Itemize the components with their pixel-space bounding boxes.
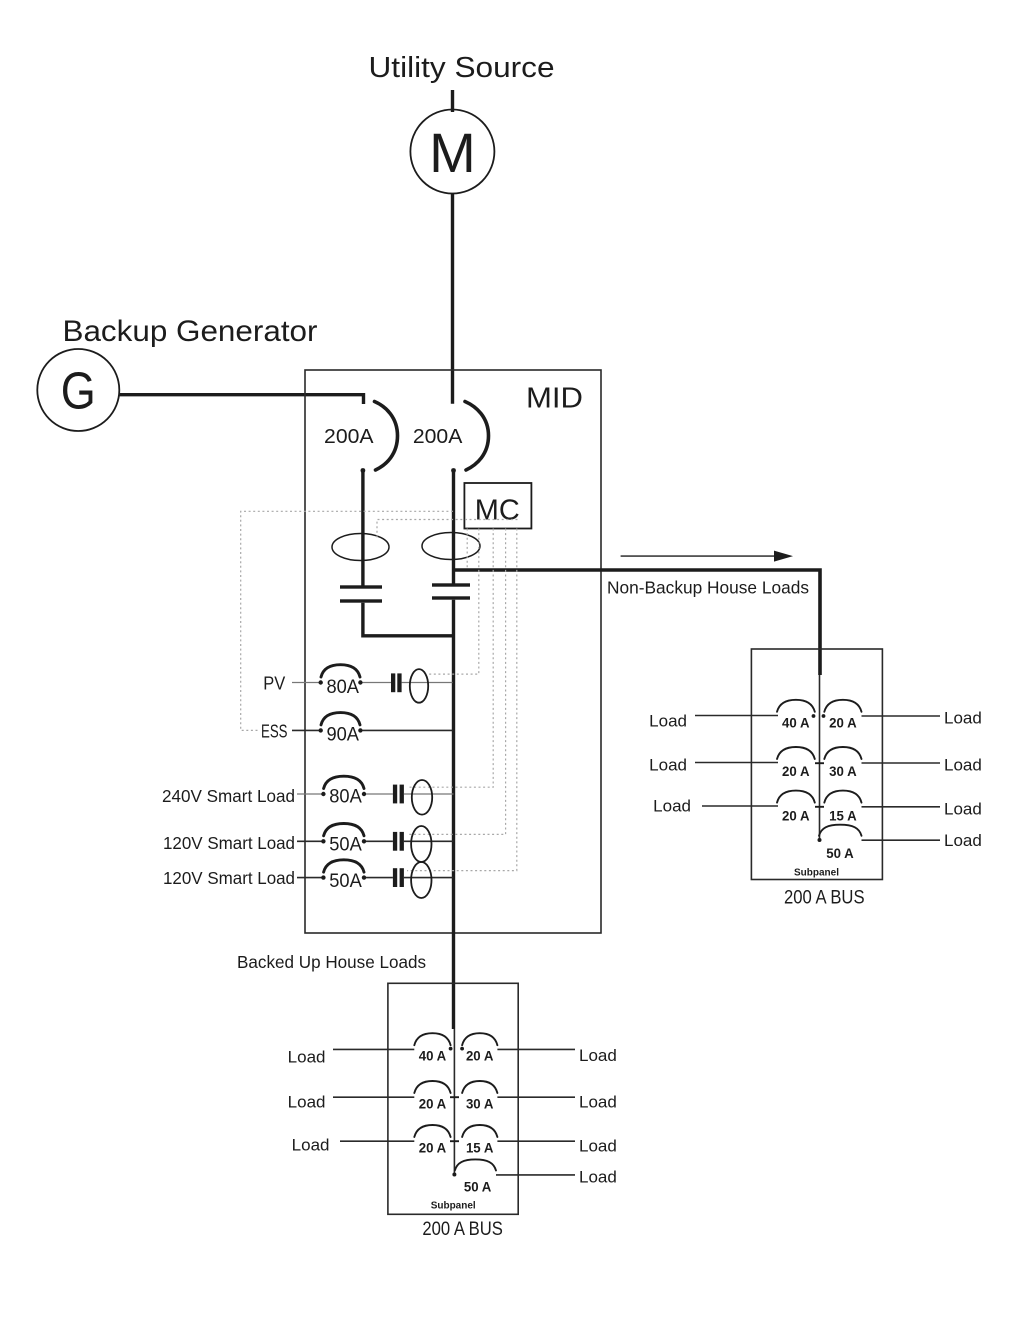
MC controller box xyxy=(464,483,531,529)
svg-text:200A: 200A xyxy=(324,425,374,448)
svg-text:Load: Load xyxy=(292,1136,330,1155)
breaker B1L 40A xyxy=(414,1033,450,1064)
sensor 120V-1 xyxy=(411,826,431,862)
wire dotted PV sensor control xyxy=(427,529,479,675)
breaker B2R 30A xyxy=(462,1081,497,1112)
svg-text:20 A: 20 A xyxy=(419,1097,447,1112)
wire 120V-1 breaker to sensor xyxy=(366,840,393,842)
breaker R3R 15A xyxy=(824,791,861,824)
svg-text:Non-Backup House Loads: Non-Backup House Loads xyxy=(607,578,809,598)
wire non-backup feeder xyxy=(454,570,821,675)
svg-text:200 A BUS: 200 A BUS xyxy=(422,1219,503,1240)
sensor PV xyxy=(410,669,428,703)
wire 120V-2 lead xyxy=(297,877,324,879)
ESS branch xyxy=(261,713,453,746)
breaker R1R 20A xyxy=(824,700,861,731)
wire PV lead xyxy=(292,682,321,684)
wire dotted left CT control xyxy=(377,520,518,541)
svg-text:15 A: 15 A xyxy=(829,808,857,823)
breaker 240V 80A xyxy=(324,776,364,788)
svg-text:Load: Load xyxy=(579,1093,617,1112)
breaker R2L 20A xyxy=(777,747,815,779)
svg-text:30 A: 30 A xyxy=(829,764,857,779)
contactor generator side xyxy=(340,585,382,602)
breaker B4 50A xyxy=(455,1159,496,1194)
wire load B1L xyxy=(333,1048,414,1050)
svg-text:MC: MC xyxy=(475,495,520,527)
120V smart load branch 1 xyxy=(163,824,454,863)
svg-text:Backed Up House Loads: Backed Up House Loads xyxy=(237,952,426,972)
svg-text:80A: 80A xyxy=(329,786,362,808)
wire subpanel bottom bus xyxy=(453,1029,455,1175)
svg-text:240V Smart Load: 240V Smart Load xyxy=(162,786,295,806)
120V smart load branch 2 xyxy=(163,860,454,898)
240V smart load branch xyxy=(162,776,454,814)
subpanel bottom enclosure xyxy=(388,983,518,1214)
wire load R2R xyxy=(862,762,941,764)
svg-text:Load: Load xyxy=(944,831,982,850)
contact pair 120V-2 xyxy=(393,868,397,887)
wire PV breaker to sensor xyxy=(363,682,392,684)
svg-text:120V Smart Load: 120V Smart Load xyxy=(163,833,295,853)
wire generator to MID generator breaker xyxy=(120,395,364,404)
subpanel right enclosure xyxy=(751,649,882,880)
svg-text:40 A: 40 A xyxy=(419,1049,447,1064)
breaker B1R 20A xyxy=(462,1033,497,1064)
breaker R4 50A xyxy=(819,825,862,861)
wire load B2L xyxy=(333,1096,414,1098)
svg-text:20 A: 20 A xyxy=(829,716,857,731)
wire load R2L xyxy=(695,762,778,764)
wire ESS breaker to bus xyxy=(363,729,453,731)
CT generator side xyxy=(332,534,389,561)
svg-text:20 A: 20 A xyxy=(782,764,810,779)
wire generator breaker to contactor xyxy=(361,469,364,587)
breaker B3L 20A xyxy=(414,1125,450,1156)
wire load B4R xyxy=(496,1174,575,1176)
wire load R1L xyxy=(695,715,778,717)
svg-text:Load: Load xyxy=(653,797,691,816)
arrow non-backup direction xyxy=(621,551,793,562)
wire generator contactor to bus xyxy=(363,603,454,636)
MID enclosure xyxy=(305,370,601,933)
wire 120V-2 sensor to bus xyxy=(404,877,454,879)
svg-text:Load: Load xyxy=(579,1046,617,1065)
wire load B1R xyxy=(497,1048,575,1050)
wire load R3R xyxy=(862,806,941,808)
svg-text:50 A: 50 A xyxy=(464,1179,492,1194)
sensor 240V xyxy=(412,780,432,815)
svg-text:50A: 50A xyxy=(329,834,362,856)
svg-text:MID: MID xyxy=(526,383,583,415)
breaker 120V-2 50A xyxy=(324,860,364,872)
wire dotted 240V sensor control xyxy=(407,529,493,788)
wire utility drop to meter xyxy=(451,90,454,112)
wire 120V-2 breaker to sensor xyxy=(366,877,393,879)
breaker R2R 30A xyxy=(824,747,861,779)
wire load R1R xyxy=(862,715,941,717)
PV branch xyxy=(263,665,452,703)
wire 120V-1 sensor to bus xyxy=(404,840,454,842)
svg-text:Subpanel: Subpanel xyxy=(431,1200,476,1212)
svg-text:20 A: 20 A xyxy=(419,1141,447,1156)
wire 240V breaker to sensor xyxy=(366,793,393,795)
wire load R3L xyxy=(702,805,778,807)
wire load B2R xyxy=(497,1096,575,1098)
junction ticks right subpanel bus xyxy=(815,763,824,807)
svg-text:20 A: 20 A xyxy=(466,1049,494,1064)
svg-text:Load: Load xyxy=(649,756,687,775)
generator G xyxy=(37,349,119,431)
wire meter to MID utility breaker xyxy=(451,194,454,404)
svg-text:20 A: 20 A xyxy=(782,808,810,823)
svg-text:90A: 90A xyxy=(326,724,359,746)
svg-text:Load: Load xyxy=(649,712,687,731)
breaker 120V-1 50A xyxy=(324,824,364,836)
breaker B3R 15A xyxy=(462,1125,497,1156)
wire backed-up bus xyxy=(452,600,455,1029)
wire dotted 120V sensor 2 control xyxy=(407,529,517,871)
wire 120V-1 lead xyxy=(297,840,324,842)
breaker 200A generator xyxy=(324,402,397,471)
svg-text:50 A: 50 A xyxy=(826,846,854,861)
dotted control wiring MC to CTs and sensors xyxy=(241,511,518,870)
sensor 120V-2 xyxy=(411,862,431,898)
svg-text:30 A: 30 A xyxy=(466,1097,494,1112)
wire dotted 120V sensor 1 control xyxy=(407,529,506,835)
contact pair 240V xyxy=(393,785,397,804)
svg-text:40 A: 40 A xyxy=(782,716,810,731)
meter M xyxy=(410,110,494,194)
breaker PV 80A xyxy=(321,665,360,677)
breaker ESS 90A xyxy=(321,713,360,725)
svg-text:PV: PV xyxy=(263,674,285,694)
svg-text:Load: Load xyxy=(288,1048,326,1067)
svg-text:Backup Generator: Backup Generator xyxy=(63,315,318,348)
svg-text:200 A BUS: 200 A BUS xyxy=(784,888,865,909)
wire load B3R xyxy=(497,1140,575,1142)
svg-text:200A: 200A xyxy=(413,425,463,448)
loads bottom subpanel left side xyxy=(333,1049,414,1141)
breaker 200A utility xyxy=(413,402,489,471)
svg-text:G: G xyxy=(61,363,96,421)
svg-text:Load: Load xyxy=(944,800,982,819)
breaker R1L 40A xyxy=(777,700,815,731)
junction ticks bottom subpanel bus xyxy=(450,1097,459,1141)
wire dotted feeder sense xyxy=(466,529,468,569)
svg-text:ESS: ESS xyxy=(261,722,288,742)
breaker B2L 20A xyxy=(414,1081,450,1112)
wire 240V sensor to bus xyxy=(404,793,454,795)
CT utility side xyxy=(422,533,480,560)
svg-text:Load: Load xyxy=(579,1168,617,1187)
svg-text:15 A: 15 A xyxy=(466,1141,494,1156)
svg-text:80A: 80A xyxy=(326,676,359,698)
loads right subpanel left side xyxy=(695,716,778,807)
svg-text:Subpanel: Subpanel xyxy=(794,867,839,879)
svg-text:Load: Load xyxy=(288,1093,326,1112)
svg-text:50A: 50A xyxy=(329,870,362,892)
wire dotted ESS control xyxy=(241,511,453,730)
contactor utility side xyxy=(432,583,470,599)
breaker R3L 20A xyxy=(777,791,815,824)
wire subpanel right bus xyxy=(819,675,821,841)
wire ESS lead xyxy=(292,729,321,731)
svg-text:Load: Load xyxy=(944,709,982,728)
contact pair PV xyxy=(391,673,395,692)
contact pair 120V-1 xyxy=(393,832,397,851)
svg-text:Load: Load xyxy=(944,756,982,775)
svg-text:Load: Load xyxy=(579,1137,617,1156)
wire PV sensor to bus xyxy=(402,682,453,684)
svg-text:Utility Source: Utility Source xyxy=(369,52,555,84)
svg-text:M: M xyxy=(429,121,476,184)
wire load R4R xyxy=(862,839,941,841)
svg-text:120V Smart Load: 120V Smart Load xyxy=(163,868,295,888)
wire load B3L xyxy=(340,1140,414,1142)
wire utility breaker to contactor xyxy=(452,469,455,585)
wire 240V lead xyxy=(297,793,324,795)
